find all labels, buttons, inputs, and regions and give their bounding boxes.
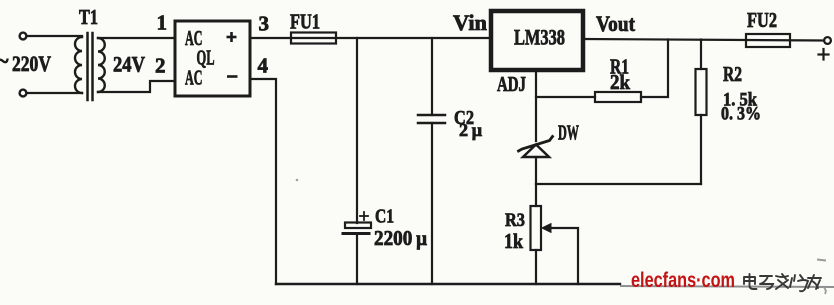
wire QL pin 4 down to bottom rail (250, 79, 276, 284)
rectifier bridge QL (175, 21, 250, 96)
resistor R1 (595, 92, 641, 102)
capacitor C1 (343, 223, 371, 234)
svg-text:~: ~ (0, 48, 9, 73)
watermark underline (620, 286, 834, 287)
R3 wiper arrow (542, 224, 551, 233)
scan artifact dash top right (817, 260, 826, 261)
output plus sign (819, 49, 829, 60)
svg-text:1k: 1k (504, 229, 523, 253)
output terminal plus (824, 37, 831, 44)
svg-text:FU1: FU1 (290, 10, 320, 34)
input terminal bottom (20, 90, 27, 97)
QL terminal plus (227, 32, 237, 42)
wire R2 top to Vout rail (700, 40, 702, 70)
transformer T1 (75, 33, 105, 100)
zener diode DW (519, 137, 553, 158)
svg-text:R2: R2 (723, 62, 742, 86)
svg-text:T1: T1 (79, 5, 98, 29)
QL terminal minus (227, 75, 238, 78)
svg-text:0. 3%: 0. 3% (721, 104, 761, 125)
svg-text:24V: 24V (113, 52, 145, 77)
svg-text:AC: AC (185, 66, 203, 90)
resistor R2 (696, 69, 707, 115)
svg-text:2k: 2k (610, 70, 630, 94)
wire ADJ to R1 left (536, 96, 595, 98)
wire reference node horizontal (536, 183, 701, 185)
C1 polarity plus (360, 212, 368, 220)
fuse FU2 (746, 34, 790, 47)
wire DW anode to reference node (535, 157, 537, 184)
wire T1 secondary bottom to QL pin 2 (98, 81, 175, 92)
wire bottom rail (276, 283, 620, 285)
wire C2 branch upper (431, 38, 433, 115)
svg-text:Vin: Vin (453, 10, 487, 35)
wire C1 branch lower (356, 234, 358, 285)
wire C1 branch upper (356, 38, 358, 223)
watermark Chinese characters (744, 274, 821, 291)
svg-text:LM338: LM338 (514, 25, 565, 50)
svg-text:R3: R3 (505, 210, 525, 231)
input terminal top (20, 33, 27, 40)
wire R1 right up to Vout rail (641, 40, 668, 98)
wire input live to T1 primary top (27, 35, 83, 37)
svg-text:Vout: Vout (596, 11, 636, 36)
wire ADJ pin down (535, 70, 537, 141)
wire QL pin 3 to FU1 and on to LM338 Vin (250, 37, 491, 39)
wire R3 bottom to rail (535, 250, 537, 284)
capacitor C2 (418, 115, 445, 123)
svg-text:2200 μ: 2200 μ (374, 226, 427, 250)
svg-text:DW: DW (558, 121, 579, 145)
svg-text:4: 4 (258, 54, 269, 78)
svg-text:ADJ: ADJ (497, 72, 526, 96)
regulator U1 LM338 (491, 11, 583, 70)
wire Vout rail through FU2 to output (583, 39, 824, 41)
svg-text:2: 2 (155, 54, 166, 78)
svg-text:C1: C1 (375, 206, 394, 228)
fuse FU1 (291, 33, 336, 44)
wire R3 wiper to bottom rail (551, 228, 578, 284)
scan artifact comma bottom right (824, 288, 826, 294)
potentiometer R3 body (531, 206, 542, 250)
wire C2 branch lower (431, 123, 433, 284)
svg-text:2 μ: 2 μ (459, 120, 482, 140)
wire reference node to R3 top (535, 184, 537, 206)
scan artifact dot (296, 179, 299, 182)
svg-text:1: 1 (157, 11, 168, 35)
svg-text:220V: 220V (12, 51, 51, 76)
wire T1 secondary top to QL pin 1 (98, 37, 175, 39)
svg-text:elecfans·com: elecfans·com (631, 269, 735, 292)
wire R2 bottom down to reference node (700, 115, 702, 184)
wire input neutral to T1 primary bottom (27, 92, 83, 94)
svg-text:FU2: FU2 (747, 8, 777, 32)
svg-text:3: 3 (259, 12, 270, 36)
